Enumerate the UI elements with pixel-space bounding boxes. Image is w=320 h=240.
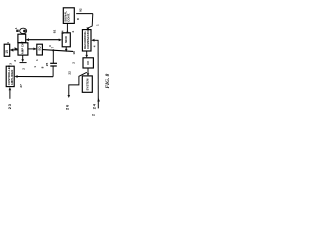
- arrowhead down box12 output: [21, 59, 24, 62]
- wire: box16 output rail: [43, 50, 74, 52]
- block 94 (box under top box): [62, 33, 70, 47]
- svg-text:CONT.: CONT.: [67, 13, 71, 22]
- wire: top box down to box 94: [66, 23, 68, 31]
- wire: capacitor branch down: [52, 50, 54, 63]
- svg-text:27: 27: [19, 84, 23, 88]
- svg-text:2: 2: [72, 62, 76, 64]
- block 23 (box M2): [82, 76, 92, 92]
- arrowhead left into tall right box side: [91, 39, 94, 42]
- svg-text:15: 15: [5, 50, 9, 54]
- svg-text:4: 4: [71, 31, 75, 33]
- block 96 (tall right box): [82, 30, 91, 51]
- wire: top box to corner: [76, 13, 93, 15]
- arrowhead down into M1: [85, 55, 88, 58]
- arrowhead left into tall left box: [14, 75, 17, 78]
- svg-text:18: 18: [72, 51, 76, 55]
- svg-text:22: 22: [68, 71, 72, 75]
- arrowhead down branch output: [68, 95, 71, 98]
- svg-text:1: 1: [14, 27, 18, 29]
- svg-text:2: 2: [13, 60, 17, 62]
- svg-text:26: 26: [65, 104, 70, 110]
- arrowhead left into head box: [26, 38, 29, 41]
- svg-text:24: 24: [60, 30, 64, 34]
- wire: cap to feedback line: [52, 66, 54, 77]
- svg-text:2: 2: [22, 68, 26, 70]
- svg-text:MOD: MOD: [64, 36, 68, 43]
- arrowhead left into box15: [10, 48, 14, 51]
- arrowhead right into box94 left: [59, 39, 62, 42]
- svg-text:3: 3: [48, 45, 52, 47]
- svg-text:8: 8: [76, 18, 80, 20]
- capacitor C plate top: [50, 62, 57, 64]
- wire: box12 to box16: [28, 48, 36, 50]
- wire: branch M1-M2 left: [69, 72, 87, 95]
- svg-text:AMPLIFIER: AMPLIFIER: [10, 69, 14, 85]
- bar under arrow: [20, 62, 27, 64]
- svg-text:COMPARATOR: COMPARATOR: [86, 28, 90, 49]
- head block (filled): [16, 30, 19, 32]
- svg-text:25: 25: [45, 62, 49, 66]
- svg-text:AMP CKT: AMP CKT: [21, 41, 25, 54]
- svg-text:2: 2: [91, 114, 95, 116]
- arrowhead down into tall right box top: [86, 27, 89, 30]
- wire: drop into tall right box: [88, 14, 93, 28]
- arrowhead right into box12 left: [15, 47, 18, 50]
- arrowhead down into M2: [87, 73, 90, 76]
- block 10 (head mount box): [18, 34, 26, 42]
- block 20 (tall left box): [6, 66, 14, 86]
- wire: head line: [27, 39, 60, 41]
- capacitor C plate bottom: [50, 65, 57, 67]
- wire: tall left box bottom input: [9, 89, 11, 99]
- svg-text:1: 1: [35, 59, 39, 61]
- wire: feedback line to tall left box: [16, 76, 53, 78]
- block 15 (left small box): [4, 44, 10, 56]
- block 92 (top control box): [63, 8, 74, 24]
- wire: rail branch into tall right box: [93, 39, 99, 41]
- arrowhead up into tall left box bottom: [9, 87, 12, 90]
- svg-text:SYSTEM: SYSTEM: [86, 78, 90, 90]
- wire: box15 to box12: [11, 49, 18, 51]
- arrowhead right into box16 left: [33, 48, 36, 51]
- wire: box12 down output: [22, 55, 24, 60]
- wire: M1 to M2: [87, 68, 89, 74]
- arrowhead up on right rail: [97, 98, 100, 101]
- wire: box94 down to rail: [65, 47, 67, 49]
- svg-text:1: 1: [33, 66, 37, 68]
- arrowhead down into box94: [66, 30, 69, 34]
- svg-text:92: 92: [79, 8, 83, 12]
- svg-text:4: 4: [92, 45, 96, 47]
- svg-text:FIG. 8: FIG. 8: [105, 73, 111, 88]
- svg-text:23: 23: [7, 103, 12, 109]
- junction dot: [52, 49, 54, 51]
- reel hub dot: [23, 30, 26, 33]
- svg-text:92: 92: [53, 29, 57, 33]
- arrowhead down box94 to rail: [65, 49, 68, 52]
- block 16 (mid small box): [37, 44, 43, 55]
- block 12 (record/play amp): [18, 43, 28, 55]
- wire: tall right box down to M1: [86, 51, 88, 55]
- wire: right rail down: [97, 40, 99, 108]
- svg-text:1: 1: [95, 24, 99, 26]
- svg-text:24: 24: [91, 103, 96, 109]
- svg-text:3: 3: [9, 63, 13, 65]
- tape reel ellipse: [20, 28, 27, 33]
- block 22 (small box M1): [83, 58, 93, 68]
